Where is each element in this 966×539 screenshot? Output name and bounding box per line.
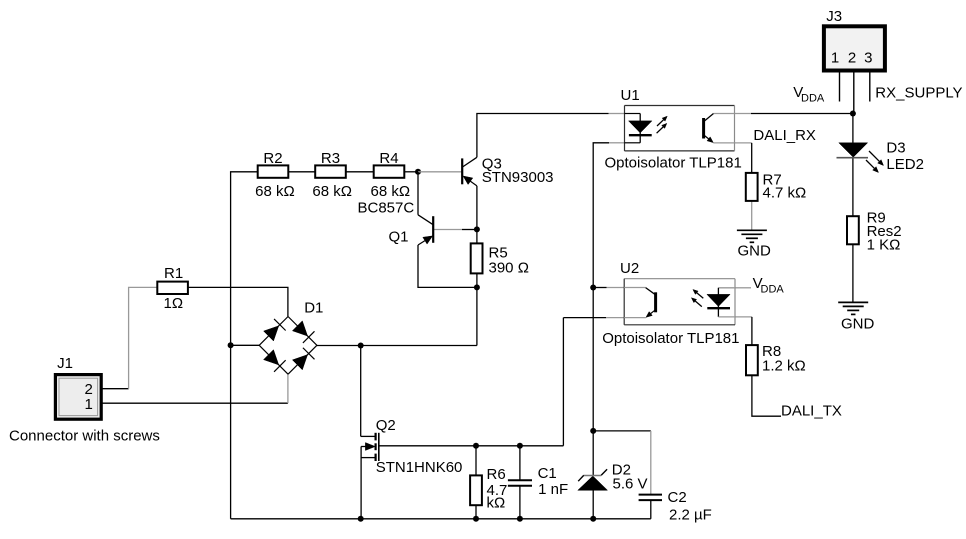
resistor R5 xyxy=(471,243,529,276)
svg-text:Q2: Q2 xyxy=(376,417,396,434)
wire xyxy=(360,346,362,437)
LED D3 xyxy=(837,139,924,173)
svg-text:68 kΩ: 68 kΩ xyxy=(312,183,352,200)
wire xyxy=(462,229,477,231)
wire xyxy=(735,113,752,115)
wire xyxy=(317,345,477,347)
svg-text:D1: D1 xyxy=(304,300,323,317)
net RX_SUPPLY xyxy=(875,85,962,102)
svg-text:1 nF: 1 nF xyxy=(538,481,568,498)
wire xyxy=(231,344,260,346)
svg-text:U2: U2 xyxy=(620,260,639,277)
svg-text:J1: J1 xyxy=(57,355,73,372)
transistor Q1 xyxy=(358,199,434,245)
svg-text:R6: R6 xyxy=(487,466,506,483)
net VDDA xyxy=(793,84,825,105)
transistor Q2 xyxy=(361,417,463,519)
wire xyxy=(751,201,753,230)
junction Q2 source xyxy=(358,516,364,522)
wire xyxy=(752,375,781,416)
wire xyxy=(379,445,564,447)
wire xyxy=(476,229,478,243)
svg-text:GND: GND xyxy=(841,315,875,332)
wire xyxy=(609,142,625,144)
svg-text:R2: R2 xyxy=(263,150,282,167)
svg-text:68 kΩ: 68 kΩ xyxy=(255,183,295,200)
node C junction xyxy=(474,284,480,290)
svg-text:LED2: LED2 xyxy=(886,156,924,173)
svg-text:J3: J3 xyxy=(826,8,842,25)
wire xyxy=(129,287,157,388)
svg-text:390 Ω: 390 Ω xyxy=(489,259,529,276)
capacitor C1 xyxy=(508,465,568,498)
node A junction xyxy=(415,169,421,175)
junction R6 bottom xyxy=(473,516,479,522)
svg-text:4.7 kΩ: 4.7 kΩ xyxy=(763,184,807,201)
wire xyxy=(434,229,462,231)
svg-text:3: 3 xyxy=(864,49,872,66)
svg-text:DDA: DDA xyxy=(761,284,785,296)
wire xyxy=(592,288,594,431)
resistor R8 xyxy=(746,343,806,375)
resistor R7 xyxy=(746,171,806,201)
node H junction xyxy=(850,111,856,117)
node E junction xyxy=(228,342,234,348)
wire xyxy=(188,287,288,316)
svg-text:DDA: DDA xyxy=(801,93,825,105)
wire xyxy=(852,114,854,143)
label Connector with screws xyxy=(9,428,160,445)
wire xyxy=(519,446,521,480)
wire xyxy=(563,317,606,319)
svg-text:DALI_TX: DALI_TX xyxy=(781,403,842,420)
wire xyxy=(751,113,853,115)
svg-text:kΩ: kΩ xyxy=(487,495,506,512)
svg-text:BC857C: BC857C xyxy=(358,199,415,216)
wire xyxy=(735,142,752,144)
wire xyxy=(231,172,258,519)
svg-text:STN1HNK60: STN1HNK60 xyxy=(376,459,463,476)
junction R6 top xyxy=(473,443,479,449)
wire xyxy=(852,158,854,217)
svg-text:U1: U1 xyxy=(621,87,640,104)
wire xyxy=(476,287,478,345)
wire xyxy=(345,171,374,173)
wire xyxy=(735,287,751,289)
wire xyxy=(592,431,594,475)
svg-text:1: 1 xyxy=(85,396,93,413)
wire xyxy=(476,273,478,287)
svg-text:D3: D3 xyxy=(886,139,905,156)
junction C1 top xyxy=(517,443,523,449)
net VDDA xyxy=(753,275,785,296)
svg-text:Optoisolator TLP181: Optoisolator TLP181 xyxy=(602,330,739,347)
wire xyxy=(592,490,594,519)
resistor R3 xyxy=(312,150,352,200)
svg-text:1.2 kΩ: 1.2 kΩ xyxy=(762,357,806,374)
svg-text:Connector with screws: Connector with screws xyxy=(9,428,160,445)
bridge rectifier D1 xyxy=(259,300,323,375)
svg-text:STN93003: STN93003 xyxy=(482,169,554,186)
resistor R2 xyxy=(255,150,295,200)
node F junction xyxy=(590,285,596,291)
svg-text:C1: C1 xyxy=(538,465,557,482)
wire xyxy=(751,317,753,345)
svg-text:RX_SUPPLY: RX_SUPPLY xyxy=(875,85,962,102)
wire xyxy=(650,500,652,519)
svg-text:Q1: Q1 xyxy=(389,229,409,246)
op-amp U1 optoisolator TLP181 xyxy=(605,87,742,172)
svg-text:1 KΩ: 1 KΩ xyxy=(867,237,901,254)
svg-text:R4: R4 xyxy=(379,150,398,167)
wire xyxy=(288,171,316,173)
wire xyxy=(606,317,624,319)
wire xyxy=(287,374,289,403)
wire xyxy=(475,505,477,519)
svg-text:C2: C2 xyxy=(668,489,687,506)
wire xyxy=(650,431,652,494)
svg-text:Optoisolator TLP181: Optoisolator TLP181 xyxy=(605,155,742,172)
resistor R4 xyxy=(371,150,411,200)
ground xyxy=(737,230,771,259)
wire xyxy=(735,316,752,318)
svg-text:R3: R3 xyxy=(321,150,340,167)
pin J3-2 xyxy=(853,71,855,114)
junction C1 bottom xyxy=(517,516,523,522)
connector J1 xyxy=(55,355,101,419)
wire xyxy=(476,186,478,230)
wire xyxy=(593,143,609,288)
svg-text:GND: GND xyxy=(738,243,772,260)
wire xyxy=(404,171,418,173)
svg-text:DALI_RX: DALI_RX xyxy=(753,127,816,144)
resistor R1 xyxy=(157,265,188,312)
pin J3-3 xyxy=(869,71,871,102)
zener diode D2 xyxy=(578,462,648,493)
node G junction xyxy=(590,428,596,434)
junction D2 anode xyxy=(590,516,596,522)
svg-text:5.6 V: 5.6 V xyxy=(613,476,648,493)
node D junction xyxy=(358,343,364,349)
wire xyxy=(609,113,625,115)
wire xyxy=(593,287,606,289)
net DALI_TX xyxy=(781,403,842,420)
resistor R6 xyxy=(470,466,507,511)
wire xyxy=(475,446,477,476)
wire xyxy=(852,244,854,302)
capacitor C2 xyxy=(639,489,712,524)
connector J3 xyxy=(824,8,885,71)
svg-text:2: 2 xyxy=(848,49,856,66)
wire xyxy=(418,245,477,287)
wire xyxy=(751,143,753,173)
net DALI_RX xyxy=(753,127,816,144)
svg-text:2.2 µF: 2.2 µF xyxy=(669,507,712,524)
wire xyxy=(101,388,128,390)
wire xyxy=(607,287,625,289)
svg-text:1: 1 xyxy=(831,49,839,66)
resistor R9 xyxy=(847,209,902,253)
wire xyxy=(519,486,521,519)
wire xyxy=(477,114,609,158)
svg-text:68 kΩ: 68 kΩ xyxy=(371,183,411,200)
op-amp U2 optoisolator TLP181 xyxy=(602,260,739,347)
ground xyxy=(838,302,874,332)
wire xyxy=(562,318,564,446)
pin J3-1 xyxy=(839,71,841,102)
wire xyxy=(417,172,419,215)
wire xyxy=(101,402,288,404)
wire xyxy=(231,518,651,520)
node B junction xyxy=(474,226,480,232)
wire xyxy=(418,171,462,173)
svg-text:R1: R1 xyxy=(164,265,183,282)
transistor Q3 xyxy=(462,156,553,187)
svg-text:1Ω: 1Ω xyxy=(164,295,184,312)
wire xyxy=(593,430,651,432)
